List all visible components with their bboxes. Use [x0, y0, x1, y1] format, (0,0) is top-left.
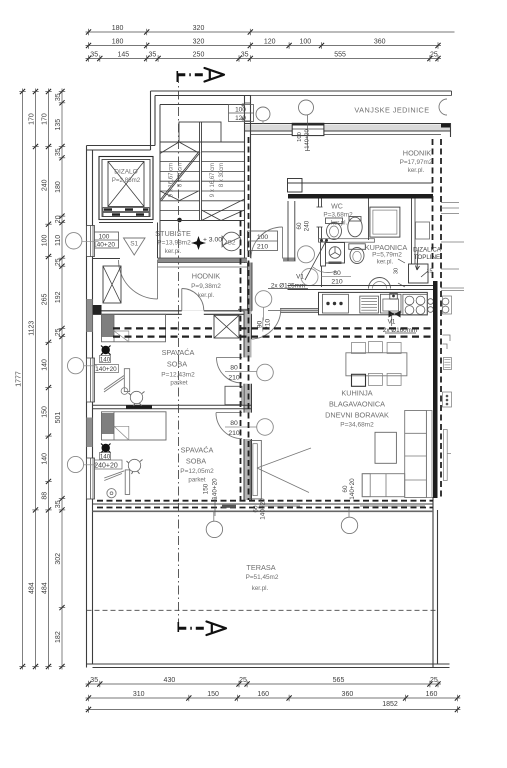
- svg-text:9 x 16,67 cm: 9 x 16,67 cm: [169, 163, 175, 197]
- wall below dizalo + door arc into hodnik: [93, 258, 121, 260]
- terrace right wall: [432, 497, 434, 668]
- svg-text:150: 150: [207, 691, 219, 698]
- svg-text:210: 210: [331, 279, 343, 286]
- stove 4 burners: [403, 294, 427, 315]
- svg-text:1852: 1852: [382, 701, 398, 708]
- svg-text:35: 35: [55, 500, 62, 508]
- svg-text:HODNIK: HODNIK: [192, 272, 221, 281]
- left window label 100/140+20: [90, 232, 119, 248]
- bedroom2 door arc 80/210: [216, 413, 242, 439]
- svg-text:501: 501: [55, 412, 62, 424]
- window in left wall at stair landing: [87, 226, 95, 257]
- svg-text:320: 320: [193, 39, 205, 46]
- V1 vent leader + label: [305, 241, 326, 280]
- svg-text:9 x 16,67 cm: 9 x 16,67 cm: [210, 163, 216, 197]
- svg-text:60: 60: [342, 485, 349, 493]
- corner sofa horizontal: [362, 474, 405, 497]
- svg-text:P=12,43m2: P=12,43m2: [161, 372, 195, 379]
- washbasin semicircle: [369, 278, 391, 289]
- shaft with X at hodnik west: [103, 266, 121, 303]
- svg-text:35: 35: [55, 93, 62, 101]
- dashed roof edge right pair: [432, 139, 434, 281]
- svg-text:484: 484: [42, 582, 49, 594]
- window 100/140+20 in top band: [292, 123, 324, 135]
- shaft with X hodnik south: [214, 315, 239, 338]
- stair middle stringer: [199, 122, 201, 221]
- dimension line top row1 180/320: [86, 31, 455, 33]
- svg-text:180: 180: [112, 25, 124, 32]
- svg-text:120: 120: [264, 39, 276, 46]
- stair treads: [160, 151, 200, 153]
- svg-text:484: 484: [29, 582, 36, 594]
- stair landing line: [160, 141, 245, 143]
- apartment right wall black: [433, 281, 438, 498]
- callout circle left window 2: [68, 358, 84, 374]
- dimension line top row2: [86, 45, 442, 47]
- apartment top wall band: [244, 125, 451, 131]
- terrace downpipe circle 2: [341, 517, 357, 533]
- dimension line left col2: [35, 89, 37, 670]
- outer wall: top-left jog: [87, 145, 156, 147]
- svg-text:8 x 30cm: 8 x 30cm: [219, 163, 225, 187]
- ledge top line (vanjske jedinice strip): [251, 90, 452, 92]
- door 100/210 stubiste-hodnik arc: [251, 227, 283, 259]
- svg-text:P=51,45m2: P=51,45m2: [246, 574, 279, 581]
- wall piece left of counter: [280, 308, 319, 310]
- hodnik east wall upper: [157, 223, 159, 259]
- bedroom2 window in left wall: [87, 458, 95, 499]
- svg-text:160: 160: [426, 691, 438, 698]
- dimension line bottom row1: [86, 683, 442, 685]
- svg-text:80: 80: [230, 420, 238, 427]
- wall stubiste/hodnik grey band: [158, 258, 248, 263]
- callout circle left window 1: [66, 233, 82, 249]
- bottom wall dashed band: [97, 500, 433, 502]
- svg-text:60: 60: [253, 505, 260, 513]
- svg-text:180: 180: [55, 181, 62, 193]
- svg-text:140: 140: [42, 453, 49, 465]
- svg-text:140: 140: [100, 357, 111, 364]
- svg-text:P=2,86m2: P=2,86m2: [112, 177, 141, 184]
- section marker A top: [177, 68, 224, 82]
- svg-text:210: 210: [257, 244, 269, 251]
- S1 triangle marker: [124, 238, 146, 255]
- svg-text:KUHINJA: KUHINJA: [341, 389, 372, 398]
- callout circle C1: [255, 291, 272, 308]
- svg-text:150: 150: [42, 406, 49, 418]
- stair enclosure inner walls: [160, 104, 245, 106]
- small dims near heat pump: [398, 259, 405, 263]
- elevator bottom wall: [99, 219, 153, 221]
- svg-text:80: 80: [230, 365, 238, 372]
- svg-text:100: 100: [299, 39, 311, 46]
- svg-text:170: 170: [29, 113, 36, 125]
- chair bedroom2: [128, 459, 140, 471]
- svg-text:SPAVAĆA: SPAVAĆA: [162, 348, 195, 357]
- bed 1: [102, 314, 166, 342]
- desk bedroom1: [124, 369, 129, 392]
- bed 2: [102, 412, 167, 440]
- svg-text:+ 3.00: + 3.00: [203, 237, 222, 244]
- svg-text:80: 80: [333, 270, 341, 277]
- svg-text:30: 30: [394, 268, 400, 274]
- svg-text:240+20: 240+20: [94, 462, 118, 469]
- bathroom door 80/210 + arc: [313, 267, 336, 273]
- svg-text:250: 250: [193, 52, 205, 59]
- wall hodnik/living vertical piece: [248, 263, 253, 311]
- cabinet between doors: [225, 386, 242, 404]
- svg-text:V1: V1: [296, 274, 304, 281]
- svg-text:VANJSKE JEDINICE: VANJSKE JEDINICE: [354, 106, 429, 115]
- dimension line bottom total 1852: [86, 709, 461, 711]
- neighbor fixtures right of wall: [442, 298, 449, 305]
- svg-text:100: 100: [42, 234, 49, 246]
- WC/KUPA divider + vanity bar: [319, 239, 375, 243]
- V1 + 2x160 label kitchen: [389, 311, 401, 318]
- callout circle C3 + leader: [257, 419, 274, 436]
- svg-text:140+20: 140+20: [349, 478, 356, 500]
- black dot marker bed1: [102, 346, 110, 354]
- svg-text:DIZALO: DIZALO: [114, 169, 137, 176]
- kitchen counter outline: [319, 292, 428, 314]
- bedroom1 door arc 80/210: [217, 357, 243, 383]
- svg-text:parket: parket: [170, 380, 187, 387]
- svg-text:P=34,68m2: P=34,68m2: [340, 422, 374, 429]
- window label 240+20 bedroom2: [90, 460, 122, 469]
- grey wall segments on left wall: [87, 299, 93, 332]
- svg-text:DIZALICA: DIZALICA: [413, 247, 442, 254]
- svg-text:8 x 30cm: 8 x 30cm: [178, 163, 184, 187]
- door label 100/210: [248, 231, 278, 251]
- dimension line bottom row2: [86, 697, 461, 699]
- svg-text:100: 100: [235, 107, 246, 114]
- svg-text:210: 210: [228, 375, 240, 382]
- elevation star +3.00: [192, 236, 206, 250]
- door arc in hodnik south wall: [182, 289, 204, 311]
- svg-text:SOBA: SOBA: [167, 360, 187, 369]
- svg-text:360: 360: [374, 39, 386, 46]
- svg-text:P=13,98m2: P=13,98m2: [157, 240, 191, 247]
- lobby ceiling lamp circles: [298, 246, 315, 263]
- black wall piece at band right end: [441, 124, 451, 128]
- svg-text:265: 265: [42, 293, 49, 305]
- stair right wall (double): [244, 96, 246, 264]
- TV cabinet: [250, 440, 261, 499]
- svg-text:P=9,38m2: P=9,38m2: [191, 283, 221, 290]
- svg-text:310: 310: [133, 691, 145, 698]
- WC west wall: [318, 199, 320, 208]
- outer wall: stair block top: [151, 90, 252, 92]
- svg-text:ker.pl.: ker.pl.: [408, 167, 425, 174]
- svg-text:35: 35: [90, 677, 98, 684]
- svg-text:192: 192: [55, 291, 62, 303]
- dimension line left col4: [61, 89, 63, 670]
- svg-text:140+20: 140+20: [212, 478, 219, 500]
- dining chairs top row: [352, 343, 366, 354]
- svg-text:ker.pl.: ker.pl.: [252, 585, 269, 592]
- svg-text:parket: parket: [188, 477, 205, 484]
- svg-text:35: 35: [55, 148, 62, 156]
- WC bidet: [348, 217, 362, 237]
- divider WC / shower: [368, 199, 370, 241]
- stair window 100/120 w/ label box: [245, 102, 251, 104]
- svg-text:170: 170: [42, 113, 49, 125]
- stair flight diagonal break marks: [160, 142, 179, 154]
- outer wall: left wall full height: [86, 146, 88, 668]
- callout circle left window 3: [67, 456, 83, 472]
- chair bedroom1: [130, 391, 142, 403]
- svg-text:565: 565: [333, 677, 345, 684]
- dimension line left total 1777: [22, 89, 24, 670]
- svg-text:160: 160: [257, 691, 269, 698]
- svg-text:140: 140: [100, 454, 111, 461]
- thin wall left of black band: [251, 195, 288, 197]
- svg-text:35: 35: [241, 52, 249, 59]
- corner sofa vertical: [405, 411, 427, 498]
- svg-text:1123: 1123: [29, 321, 36, 336]
- living room top wall after door: [281, 308, 319, 310]
- svg-text:182: 182: [55, 631, 62, 643]
- svg-text:1777: 1777: [16, 371, 23, 387]
- wall between stair zone and WC lobby: [287, 201, 289, 261]
- svg-text:35: 35: [149, 52, 157, 59]
- svg-text:135: 135: [55, 119, 62, 131]
- svg-text:SOBA: SOBA: [186, 457, 206, 466]
- kitchen unit with dots: [322, 294, 348, 313]
- svg-text:HODNIK: HODNIK: [403, 149, 432, 158]
- dining table: [346, 353, 407, 376]
- svg-text:360: 360: [342, 691, 354, 698]
- neighbor side short lines: [441, 202, 459, 204]
- svg-text:120: 120: [235, 115, 246, 122]
- svg-text:SPAVAĆA: SPAVAĆA: [181, 446, 214, 455]
- svg-text:25: 25: [430, 677, 438, 684]
- svg-text:555: 555: [334, 52, 346, 59]
- terrace bottom wall: [87, 663, 450, 665]
- dimension line top row3: [86, 58, 442, 60]
- svg-text:TERASA: TERASA: [246, 563, 275, 572]
- living entry door arc: [251, 309, 281, 339]
- svg-text:P=12,05m2: P=12,05m2: [180, 468, 214, 475]
- svg-text:150: 150: [203, 483, 210, 494]
- svg-text:140+20: 140+20: [93, 242, 115, 249]
- S2 bubble: [222, 232, 241, 251]
- svg-text:210: 210: [228, 430, 240, 437]
- svg-text:100: 100: [257, 234, 269, 241]
- bathroom bottom wall: [288, 285, 434, 287]
- svg-text:STUBIŠTE: STUBIŠTE: [155, 229, 191, 238]
- svg-text:100: 100: [297, 132, 303, 142]
- floor lamp bedroom2: [104, 471, 124, 478]
- section marker A bottom: [178, 622, 226, 636]
- svg-text:25: 25: [55, 258, 62, 266]
- svg-text:25: 25: [55, 328, 62, 336]
- outer wall: stair block left: [150, 91, 152, 150]
- column box at band left end: [288, 179, 303, 193]
- outdoor units circles: [256, 107, 270, 121]
- svg-text:S2: S2: [228, 240, 236, 247]
- dining chairs bottom row: [352, 374, 366, 386]
- svg-text:240: 240: [42, 179, 49, 191]
- callout circle C2 + leader: [257, 364, 274, 381]
- black corner block left: [93, 305, 102, 315]
- kupaonica toilet: [349, 244, 366, 250]
- svg-text:35: 35: [90, 52, 98, 59]
- svg-text:P=5,79m2: P=5,79m2: [372, 252, 402, 259]
- svg-text:88: 88: [42, 492, 49, 500]
- section line dot at stair base: [177, 218, 182, 223]
- elevator shaft walls: [99, 157, 153, 220]
- svg-text:P=17,97m2: P=17,97m2: [400, 159, 433, 166]
- bathroom east wall: [411, 199, 413, 265]
- leader line from C1: [268, 310, 319, 312]
- bathroom top wall thick black: [288, 194, 433, 199]
- svg-text:ker.pl.: ker.pl.: [377, 259, 394, 266]
- svg-text:20: 20: [55, 215, 62, 223]
- bed 1 wardrobe dark: [102, 315, 115, 337]
- elevator doors: [103, 208, 149, 212]
- bedroom1 window in left wall: [87, 358, 95, 402]
- svg-text:320: 320: [193, 25, 205, 32]
- terrace downpipe circle 1: [206, 521, 222, 537]
- svg-text:145: 145: [117, 52, 129, 59]
- section line A-A vertical: [178, 74, 180, 631]
- washing machine: [326, 243, 345, 264]
- svg-text:60: 60: [296, 222, 303, 230]
- svg-text:140: 140: [42, 359, 49, 371]
- svg-text:430: 430: [164, 677, 176, 684]
- svg-text:110: 110: [55, 235, 62, 246]
- desk bedroom2: [125, 470, 130, 495]
- sink: [380, 294, 401, 313]
- svg-text:S1: S1: [130, 241, 138, 248]
- window sills bottom: [222, 505, 236, 508]
- elevator cabin with X: [108, 162, 144, 207]
- svg-text:DNEVNI BORAVAK: DNEVNI BORAVAK: [325, 411, 389, 420]
- handles right of stove: [428, 299, 434, 305]
- stair void rect: [179, 122, 221, 142]
- WC toilet: [326, 218, 343, 224]
- svg-text:302: 302: [55, 553, 62, 565]
- bed 2 pillow dark: [102, 413, 115, 434]
- svg-text:240: 240: [304, 220, 311, 231]
- lounge diagonal bedroom1: [104, 376, 124, 390]
- svg-text:BLAGAVAONICA: BLAGAVAONICA: [329, 400, 385, 409]
- TV direction lines: [257, 448, 311, 468]
- dashed roof edge left pair: [240, 211, 242, 500]
- terrace dashed line: [87, 609, 438, 611]
- svg-text:140+20: 140+20: [260, 498, 267, 520]
- dashed horizontal pair: [113, 327, 433, 329]
- wall bedrooms/living vertical: [244, 311, 252, 358]
- svg-text:WC: WC: [331, 204, 343, 211]
- shower tray: [370, 207, 400, 237]
- svg-text:100: 100: [99, 234, 110, 241]
- dishwasher stripes: [360, 296, 379, 313]
- svg-text:180: 180: [112, 39, 124, 46]
- niche cabinet right of bathroom: [416, 222, 430, 239]
- dimension line left col3: [48, 89, 50, 670]
- svg-text:25: 25: [430, 52, 438, 59]
- WC door leaf rect: [321, 242, 326, 266]
- hodnik/bedroom1 wall: [93, 310, 253, 312]
- svg-text:140+20: 140+20: [95, 366, 117, 373]
- black dot marker bed2: [102, 444, 110, 452]
- svg-text:ker.pl.: ker.pl.: [165, 248, 182, 255]
- bedrooms divider wall: [93, 404, 252, 406]
- svg-text:25: 25: [239, 677, 247, 684]
- coffee table: [375, 432, 396, 463]
